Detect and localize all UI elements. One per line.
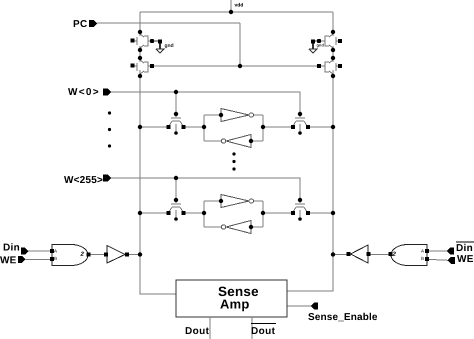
buffer U3 (right write buffer, points left) (351, 245, 369, 263)
junctions: row1 cell nodes and inverter inputs (202, 113, 265, 143)
wire: vdd top rail (140, 11, 333, 13)
terminals: AND gate U4 pins A,B and output (389, 249, 430, 261)
wire: buffer1 output to BL (125, 254, 140, 256)
cell loop row1 (204, 115, 263, 141)
wire: row2 cell wire left (140, 212, 169, 214)
terminals: M3 gate/bulk and right gnd tap (311, 39, 342, 44)
port arrow PC (89, 20, 97, 27)
terminals: N1 source/drain (167, 125, 186, 129)
label gnd right (317, 44, 324, 48)
terminals: buffer U2 input/output (104, 253, 129, 257)
wire: Doutb stub (251, 317, 253, 339)
bulk contacts: access transistors N1-N4 (174, 131, 302, 221)
label Doutb with overline (251, 323, 276, 325)
wire: AND1 output to buffer1 (88, 254, 105, 256)
vdd supply stub (230, 0, 232, 12)
pin label B AND1 (54, 257, 56, 260)
ellipsis dots center column (232, 152, 235, 170)
junctions: right bitline column (M3/M4 leads, row taps, driver tap) (331, 30, 335, 257)
inverter row2 bottom (points left) (221, 221, 251, 234)
wire: Din input to AND1 (28, 250, 52, 252)
wire: buffer2 input to AND2 output (368, 254, 390, 256)
terminals: M1 gate/bulk and left gnd tap (131, 39, 163, 44)
pin label A AND1 (54, 249, 57, 252)
inverter row1 top (points right) (221, 109, 254, 122)
port arrow WE (18, 256, 25, 263)
terminals: M4 gate/bulk (317, 64, 342, 68)
ground symbol left (152, 41, 164, 53)
terminals: N3 source/drain (167, 211, 186, 215)
terminals: N2 source/drain (291, 125, 310, 129)
pin label 2 AND1 (80, 252, 83, 256)
wire: PC/equalize net horizontal y=66 (152, 65, 319, 67)
inverter row2 top (points right) (221, 195, 254, 208)
transistor N2 access NMOS row1 right (293, 115, 307, 131)
label vdd (235, 3, 244, 7)
buffer U2 (left write buffer) (107, 246, 125, 264)
port arrow W<255> (103, 175, 111, 182)
junctions: W<255> word line gate taps (174, 176, 302, 202)
label Dinb with overline (456, 241, 474, 243)
terminals: AND gate U1 pins A,B and output (50, 249, 91, 261)
terminals: M2 gate/bulk (131, 64, 155, 69)
wire: word line W<255> (111, 178, 300, 200)
pin label B AND2 (421, 257, 423, 260)
AND gate U4 (Dinb/WE write driver right) (391, 245, 427, 266)
junctions: left bitline column (M1/M2 leads, row taps, driver tap) (138, 30, 142, 257)
transistor N1 access NMOS row1 left (169, 115, 183, 131)
wire: PC net horizontal (97, 22, 240, 24)
port arrow WE (right) (448, 257, 455, 264)
label gnd left (165, 43, 174, 48)
wire: row1 cell wire right (263, 126, 293, 128)
junction: PC net meets equalize wire (238, 64, 242, 68)
transistor M2 PMOS bottom-left (133, 60, 152, 74)
wire: W<255> left gate drop (175, 178, 177, 200)
Sense Amp block (176, 280, 287, 317)
junctions: W<0> word line gate taps (174, 90, 302, 116)
label Amp (220, 300, 249, 312)
port arrow Sense_Enable (311, 303, 319, 310)
wire: AND2 input A to Dinb port (427, 250, 447, 252)
wire: BLB to buffer2 output (333, 254, 351, 256)
label Din (4, 243, 19, 250)
label WE (0, 256, 16, 263)
label Din-bar right (457, 244, 472, 251)
junction: vdd stub on top rail (229, 10, 233, 14)
inverter row1 bottom (points left) (221, 135, 251, 148)
pin label 2 AND2 (392, 252, 395, 256)
label Dout-bar (252, 327, 275, 334)
wire: AND2 input B to WE port (427, 259, 448, 260)
wire: word line W<0> (111, 92, 300, 114)
wire: row2 cell wire right (263, 212, 293, 214)
cell loop row2 (204, 201, 263, 227)
transistor N4 access NMOS row2 right (293, 201, 307, 217)
port arrow Din (21, 248, 29, 255)
label WE right (457, 255, 473, 262)
junctions: row2 cell nodes and inverter inputs (202, 199, 265, 229)
label Dout (186, 327, 209, 334)
label PC (74, 20, 87, 27)
label Sense (218, 287, 258, 297)
wire: right bitline BLB (x=333) (332, 12, 334, 36)
terminals: buffer U3 input/output (347, 252, 371, 256)
transistor M4 PMOS bottom-right (321, 60, 340, 74)
port arrow W<0> (103, 89, 111, 96)
wire: PC net vertical drop (239, 23, 241, 66)
transistor M3 precharge PMOS top-right (321, 34, 340, 48)
ground symbol right (309, 41, 321, 53)
transistor M1 precharge PMOS top-left (133, 34, 152, 48)
wire: Dout stub (209, 317, 211, 339)
terminals: N4 source/drain (291, 211, 310, 215)
label W<0> (68, 88, 98, 95)
wire: W<0> left gate drop (175, 92, 177, 114)
AND gate U1 (Din/WE write driver left) (52, 245, 88, 266)
pin label A AND2 (421, 249, 424, 252)
ellipsis dots left column (108, 111, 111, 147)
label Sense_Enable (308, 313, 377, 321)
label W<255> (64, 176, 102, 183)
wire: sense amp to Sense_Enable port (287, 305, 311, 307)
port arrow Dinb (right) (447, 248, 455, 255)
wire: WE input to AND1 (25, 258, 52, 260)
transistor N3 access NMOS row2 left (169, 201, 183, 217)
wire: row1 cell wire left (140, 126, 169, 128)
wire: left bitline BL (x=140) (139, 12, 141, 36)
